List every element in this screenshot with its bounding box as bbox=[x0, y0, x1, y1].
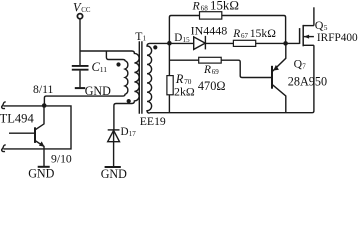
svg-text:GND: GND bbox=[28, 167, 54, 178]
break squiggle top bbox=[2, 102, 6, 109]
svg-text:2kΩ: 2kΩ bbox=[174, 85, 195, 99]
MOSFET Q5 channel bar bbox=[302, 25, 304, 46]
ground (TL494 emitter) bbox=[38, 166, 50, 168]
diode D17 cathode bar bbox=[108, 129, 120, 131]
transformer phase dot (primary outer) bbox=[127, 99, 131, 103]
svg-text:5: 5 bbox=[324, 23, 328, 32]
svg-text:15kΩ: 15kΩ bbox=[250, 27, 277, 40]
svg-text:15kΩ: 15kΩ bbox=[210, 0, 239, 13]
svg-text:CC: CC bbox=[81, 7, 91, 14]
svg-text:470Ω: 470Ω bbox=[198, 79, 226, 93]
resistor R69 bbox=[199, 57, 222, 63]
svg-text:7: 7 bbox=[302, 62, 306, 70]
TL494 box bbox=[3, 106, 71, 149]
svg-text:28A950: 28A950 bbox=[288, 75, 327, 89]
Q7 emitter arrow bbox=[273, 65, 279, 71]
svg-text:EE19: EE19 bbox=[140, 115, 166, 128]
transistor Q7 collector bbox=[272, 85, 285, 113]
wire bbox=[80, 50, 132, 52]
wire bbox=[79, 19, 81, 66]
svg-text:8/11: 8/11 bbox=[33, 83, 54, 96]
svg-text:R: R bbox=[203, 64, 211, 76]
transistor Q7 emitter bbox=[272, 46, 285, 72]
break squiggle bottom bbox=[2, 145, 6, 152]
junction dot (R68/R70 tap) bbox=[167, 41, 172, 46]
svg-text:9/10: 9/10 bbox=[51, 153, 72, 166]
svg-text:11: 11 bbox=[100, 65, 108, 74]
junction dot (gate node) bbox=[283, 41, 288, 46]
transformer T1 primary inner winding bbox=[44, 51, 127, 105]
svg-text:R: R bbox=[232, 28, 240, 40]
wire through D17 bbox=[113, 130, 115, 167]
transistor collector bbox=[35, 106, 44, 130]
transformer phase dot (primary inner) bbox=[116, 62, 120, 66]
svg-text:GND: GND bbox=[85, 84, 111, 98]
svg-text:D: D bbox=[121, 126, 129, 138]
transistor emitter bbox=[35, 141, 44, 167]
svg-text:IRFP400: IRFP400 bbox=[317, 32, 358, 44]
R68 branch wire bbox=[169, 16, 285, 44]
svg-text:68: 68 bbox=[201, 5, 209, 13]
Vcc terminal bbox=[77, 14, 82, 19]
transformer T1 secondary winding bbox=[147, 43, 152, 113]
R70 branch wire bbox=[168, 43, 170, 112]
svg-text:69: 69 bbox=[212, 68, 220, 76]
svg-text:1: 1 bbox=[143, 35, 147, 43]
svg-text:15: 15 bbox=[183, 36, 191, 44]
resistor R68 bbox=[200, 12, 222, 19]
diode D15 bbox=[194, 37, 206, 50]
ground bbox=[75, 87, 85, 89]
svg-text:Q: Q bbox=[294, 57, 303, 70]
wire bbox=[79, 71, 81, 88]
capacitor C11 bbox=[72, 66, 89, 70]
svg-text:17: 17 bbox=[129, 130, 137, 138]
svg-text:IN4448: IN4448 bbox=[191, 24, 228, 38]
svg-text:T: T bbox=[135, 30, 142, 43]
diode D17 bbox=[108, 130, 120, 141]
transistor base lead bbox=[9, 132, 34, 134]
svg-text:GND: GND bbox=[101, 167, 127, 178]
resistor R67 bbox=[233, 40, 255, 46]
ground (D17) bbox=[105, 166, 121, 168]
MOSFET Q5 drain stub bbox=[303, 25, 314, 27]
junction dot pin 8/11 bbox=[42, 103, 47, 108]
R69 wire bbox=[169, 60, 271, 77]
diode D15 cathode bar bbox=[204, 36, 206, 50]
transistor base bar bbox=[34, 127, 36, 143]
bottom rail bbox=[150, 45, 314, 112]
MOSFET Q5 gate bar bbox=[299, 28, 301, 44]
svg-text:D: D bbox=[174, 32, 182, 44]
transistor Q7 base bar bbox=[271, 66, 273, 89]
transformer T1 primary outer winding bbox=[114, 51, 139, 130]
main secondary wire to gate bbox=[150, 42, 300, 44]
svg-text:TL494: TL494 bbox=[0, 111, 34, 125]
resistor R70 bbox=[167, 76, 173, 95]
MOSFET Q5 body arrow bbox=[304, 35, 309, 39]
MOSFET Q5 source stub bbox=[303, 44, 314, 46]
svg-text:Q: Q bbox=[315, 18, 324, 32]
MOSFET Q5 body stub bbox=[303, 36, 314, 38]
transformer core bbox=[139, 41, 142, 114]
transformer phase dot (secondary) bbox=[153, 45, 157, 49]
emitter arrow bbox=[39, 141, 45, 146]
MOSFET Q5 drain bbox=[313, 7, 315, 25]
svg-text:R: R bbox=[192, 0, 201, 12]
svg-text:67: 67 bbox=[241, 32, 249, 40]
